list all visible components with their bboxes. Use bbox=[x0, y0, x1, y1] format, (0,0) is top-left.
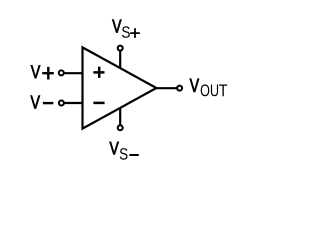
terminal VS- bbox=[118, 125, 123, 130]
pin - inverting input marker bbox=[93, 102, 104, 105]
op-amp U1 triangle bbox=[83, 47, 157, 128]
label V- bbox=[31, 96, 54, 109]
wire VS+ supply bbox=[119, 48, 121, 69]
wire V+ input bbox=[61, 72, 82, 74]
label VS+ bbox=[112, 20, 140, 38]
terminal VOUT bbox=[177, 86, 182, 91]
wire VS- supply bbox=[119, 107, 121, 128]
label VOUT bbox=[190, 79, 227, 97]
label V+ bbox=[31, 65, 54, 79]
terminal V- bbox=[59, 101, 64, 106]
wire V- input bbox=[61, 102, 82, 104]
label VS- bbox=[110, 142, 139, 160]
pin + non-inverting input marker bbox=[93, 67, 104, 78]
terminal VS+ bbox=[118, 46, 123, 51]
terminal V+ bbox=[59, 70, 64, 75]
wire output bbox=[156, 87, 180, 89]
